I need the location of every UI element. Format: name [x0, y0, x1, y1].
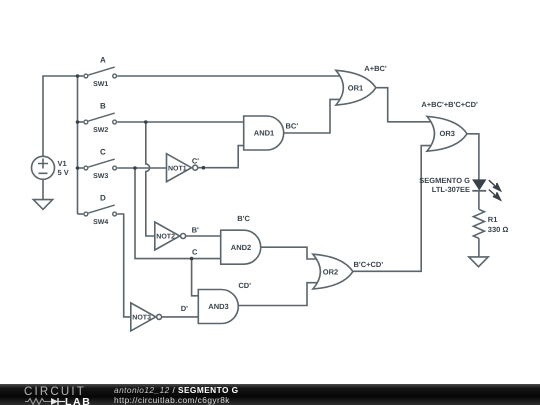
wire left rail: [77, 76, 79, 214]
node C' junction after NOT1: [202, 166, 206, 170]
wire SW4 output down to NOT3 input: [117, 214, 132, 317]
svg-text:C: C: [100, 147, 106, 156]
and gate AND1: [244, 116, 284, 150]
ground under R1: [469, 257, 488, 267]
wire SW2 output to AND1 input B: [117, 121, 245, 123]
and gate AND2: [221, 230, 261, 264]
wire V1 bottom to ground: [42, 179, 44, 199]
wire LED cathode to R1: [478, 191, 480, 210]
svg-text:B': B': [192, 225, 199, 234]
inverter NOT2: [155, 222, 186, 250]
svg-text:D: D: [100, 193, 106, 202]
svg-text:330 Ω: 330 Ω: [488, 225, 509, 234]
LED D1 SEGMENTO G: [472, 180, 486, 191]
footer title text: [114, 386, 239, 405]
label V1 5V: [58, 159, 69, 177]
svg-text:CD': CD': [238, 281, 251, 290]
footer bar: [0, 384, 540, 405]
wire NOT1 output C' to AND1 lower input: [198, 146, 245, 168]
wire rail stub to SW2: [78, 121, 84, 123]
node rail-SW1 junction: [76, 74, 80, 78]
svg-text:A+BC'+B'C+CD': A+BC'+B'C+CD': [421, 100, 478, 109]
CircuitLab logo: [24, 385, 94, 405]
svg-text:AND2: AND2: [231, 243, 251, 252]
svg-text:SEGMENTO G: SEGMENTO G: [419, 176, 470, 185]
wire rail stub to SW3: [78, 167, 84, 169]
wire rail stub to SW1: [78, 75, 84, 77]
node C junction before AND2: [190, 257, 194, 261]
svg-text:5 V: 5 V: [58, 168, 69, 177]
svg-text:LTL-307EE: LTL-307EE: [432, 185, 470, 194]
label R1 330: [488, 215, 509, 234]
svg-text:BC': BC': [286, 122, 299, 131]
wire AND2 output to OR2 upper input: [261, 247, 319, 259]
svg-text:NOT3: NOT3: [132, 315, 151, 322]
node rail-SW2 junction: [76, 120, 80, 124]
svg-text:B'C: B'C: [237, 214, 250, 223]
switch SW2 (input B): [84, 113, 117, 124]
switch SW3 (input C): [84, 159, 117, 170]
svg-text:B'C+CD': B'C+CD': [354, 260, 384, 269]
wire AND3 output to OR2 lower input: [238, 283, 319, 306]
svg-text:SW2: SW2: [93, 127, 108, 134]
switch SW4 (input D): [84, 205, 117, 216]
or gate OR1: [336, 70, 376, 105]
wire SW3 output to NOT1 input: [117, 167, 167, 169]
wire R1 to ground: [478, 238, 480, 257]
ground under V1: [33, 200, 52, 210]
wire NOT3 output D' to AND3 lower input: [162, 316, 200, 318]
svg-text:C: C: [192, 248, 198, 257]
wire node B vertical to NOT2 with hop over C wire: [146, 122, 156, 236]
svg-text:SW3: SW3: [93, 173, 108, 180]
svg-text:A: A: [100, 55, 106, 64]
wire OR3 output to LED anode: [467, 134, 479, 180]
wire rail stub to SW4: [78, 213, 84, 215]
svg-text:C': C': [192, 156, 199, 165]
node C junction on SW3 output: [133, 166, 137, 170]
svg-text:R1: R1: [488, 215, 498, 224]
junction node dots: [76, 74, 206, 260]
svg-text:OR3: OR3: [439, 129, 454, 138]
svg-text:AND3: AND3: [208, 302, 228, 311]
and gate AND3: [198, 290, 238, 324]
svg-text:AND1: AND1: [254, 129, 274, 138]
node B junction on SW2 output: [144, 120, 148, 124]
resistor R1: [473, 209, 484, 238]
switch SW1 (input A): [84, 67, 117, 78]
inverter NOT1: [167, 154, 198, 182]
wire AND1 output BC' to OR1 lower input: [284, 99, 341, 133]
svg-text:NOT2: NOT2: [156, 234, 175, 241]
wire node C branch to AND3 upper input: [192, 259, 200, 296]
node rail-SW3 junction: [76, 166, 80, 170]
svg-text:SW4: SW4: [93, 219, 108, 226]
or gate OR3: [427, 116, 467, 151]
voltage source V1: [32, 156, 55, 179]
wire OR1 output A+BC' to OR3 upper input: [376, 88, 433, 122]
or gate OR2: [313, 254, 353, 289]
inverter NOT3: [131, 303, 162, 331]
svg-text:D': D': [181, 304, 188, 313]
svg-text:B: B: [100, 101, 106, 110]
svg-text:NOT1: NOT1: [168, 165, 187, 172]
wire OR2 output B'C+CD' to OR3 lower input: [352, 146, 433, 272]
svg-text:OR2: OR2: [323, 267, 338, 276]
svg-text:OR1: OR1: [348, 83, 363, 92]
wire NOT2 output B' to AND2 upper input: [186, 235, 222, 237]
svg-text:SW1: SW1: [93, 81, 108, 88]
LED emission arrows: [489, 180, 501, 200]
wire SW1 output to OR1 input A: [117, 75, 341, 77]
wire node C vertical to AND2 lower input: [135, 168, 222, 259]
svg-text:V1: V1: [58, 159, 67, 168]
wire V1 top to rail: [43, 76, 78, 156]
svg-text:A+BC': A+BC': [364, 64, 387, 73]
